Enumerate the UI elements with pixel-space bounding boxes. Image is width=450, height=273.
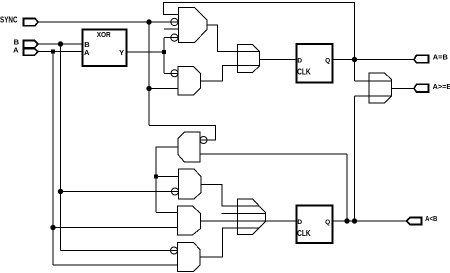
wire G3 output to U2 D [260,59,297,61]
wire U3 Q to G9 lower input [355,96,392,221]
wire Y to G1 bubble [164,37,179,39]
svg-text:A=B: A=B [433,55,448,62]
and gate G1 [171,8,207,43]
node U3 Q junction 1 [345,219,349,223]
svg-text:Q: Q [325,219,330,226]
node G4out junction [154,174,158,178]
or gate G8 [238,199,266,235]
wire A to G7 lower input [53,264,178,266]
dff U3 [297,206,333,244]
node U3 Q junction 2 [352,219,356,223]
node Y junction [162,50,166,54]
svg-text:D: D [297,57,302,64]
node B-G5 junction [58,189,62,193]
wire B vertical branch [60,44,62,251]
wire XOR Y output [127,51,165,53]
and gate G6 [178,206,201,235]
wire U3 Q to A<B [333,220,407,222]
wire G4 output to G6 [156,212,178,214]
svg-text:CLK: CLK [297,229,311,238]
wire A to G6 lower input [53,227,178,229]
wire G1 stub input [164,28,179,30]
input connector SYNC [0,16,38,26]
svg-text:XOR: XOR [97,32,111,39]
svg-text:SYNC: SYNC [0,16,18,25]
svg-text:A>=B: A>=B [433,84,450,91]
wire G1 top input from feedback rail [164,3,355,81]
svg-text:A<B: A<B [425,216,437,223]
wire SYNC horizontal [38,21,179,23]
wire Y vertical branch [163,38,165,74]
wire G9 output to A>=B [392,87,414,89]
svg-text:CLK: CLK [297,68,311,77]
wire B to G7 bubble [61,250,178,252]
wire SYNC wrap to G4 bubble [149,126,216,141]
node B junction [58,42,62,46]
wire G2 output to G3 [201,65,260,81]
wire G5 output to G8 [201,185,259,207]
nand gate G4 left-facing [178,132,207,162]
node A-G6 junction [51,225,55,229]
output connector A=B [414,55,448,63]
and gate G9 [369,73,392,103]
and gate G2 [171,67,201,96]
svg-text:A: A [84,48,90,57]
wire G7 output to G8 [200,228,259,257]
svg-text:Q: Q [325,57,330,64]
output connector A<B [407,216,438,225]
wire B to G5 bubble [61,191,179,193]
wire G8 stub input [222,212,266,214]
wire SYNC vertical branch [148,22,150,126]
wire G4 output to G5 [156,175,179,177]
input connector B [14,37,38,48]
wire rail to G9 top input [355,80,392,82]
xor gate U1 [83,30,127,67]
wire G1 output to G3 [207,25,260,52]
input connector A [13,45,38,55]
node A junction [51,50,55,54]
and gate G5 [172,169,202,199]
node SYNC-G2 junction [147,86,151,90]
wire SYNC to G2 lower input [149,88,178,90]
svg-text:D: D [297,219,302,226]
output connector A>=B [414,84,450,92]
wire Y to G2 bubble [164,72,178,74]
wire G4 output net [156,147,178,213]
wire U3 Q feedback vertical [346,154,348,221]
node SYNC junction [147,20,151,24]
node U2 Q junction [352,57,356,61]
and gate G3 [238,45,260,73]
dff U2 [297,44,333,83]
wire U2 Q to A=B [333,59,414,61]
wire G6 output through G8 to U3 D [201,220,297,222]
and gate G7 [171,243,201,272]
wire G4 bubble input wrap [200,153,347,155]
wire A vertical branch [52,52,54,266]
wire B to XOR [38,43,82,45]
wire A to XOR [38,51,82,53]
svg-text:A: A [13,45,19,54]
svg-text:Y: Y [119,48,124,57]
